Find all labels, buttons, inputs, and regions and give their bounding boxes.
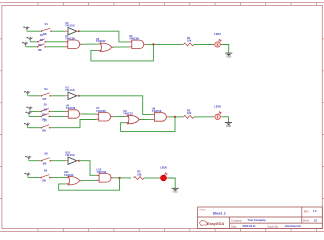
svg-text:2020-03-11: 2020-03-11 xyxy=(243,224,257,228)
svg-text:10k: 10k xyxy=(187,39,192,43)
wire row2 or out xyxy=(140,118,151,120)
frame zone ticks right xyxy=(322,39,324,199)
svg-text:Date:: Date: xyxy=(231,225,237,228)
svg-text:74HC08: 74HC08 xyxy=(65,36,75,40)
svg-text:74HC32: 74HC32 xyxy=(123,112,133,116)
power flag PWR2 xyxy=(27,37,33,42)
wire row1 and1 out xyxy=(82,43,98,45)
wire row3 or out xyxy=(81,179,97,181)
and-gate U1 xyxy=(65,40,82,49)
svg-text:Your Company: Your Company xyxy=(248,218,267,222)
svg-text:REV:: REV: xyxy=(304,210,310,213)
and-gate U4 xyxy=(66,110,83,118)
wire row2 LED to gnd xyxy=(222,117,228,123)
wire row1 or out xyxy=(113,46,129,48)
sheet outer border top line xyxy=(0,1,324,3)
wire row3 net B xyxy=(28,177,40,179)
svg-text:S6: S6 xyxy=(44,107,48,111)
and-gate U9 xyxy=(152,113,169,122)
svg-text:Sheet:: Sheet: xyxy=(303,220,310,223)
svg-text:S1: S1 xyxy=(45,22,49,26)
switch S7 xyxy=(40,125,51,129)
wire row3 to LED xyxy=(144,177,159,179)
power flag PWR1 xyxy=(23,26,29,31)
svg-text:S4: S4 xyxy=(44,87,48,91)
and-gate U6 xyxy=(129,40,146,49)
wire row2 net A xyxy=(28,95,41,97)
frame zone ticks left xyxy=(0,39,2,199)
resistor R1 xyxy=(184,43,194,46)
junction row2 J1 xyxy=(174,116,176,118)
resistor R3 xyxy=(134,177,144,180)
svg-text:S5: S5 xyxy=(44,102,48,106)
svg-text:S8: S8 xyxy=(44,152,48,156)
svg-text:1.0: 1.0 xyxy=(313,209,317,213)
wire row2 feedback xyxy=(121,117,175,131)
wire row2 net C xyxy=(29,115,40,117)
and-gate U7 xyxy=(96,113,113,122)
wire row2 net D xyxy=(28,127,41,129)
switch S5 xyxy=(40,108,51,112)
switch S2 xyxy=(37,39,47,43)
power flag PWR4 xyxy=(24,91,30,96)
wire row2 to LED xyxy=(194,116,213,118)
wire row2 net D2 xyxy=(51,120,96,128)
wire row1 buf out xyxy=(79,31,129,42)
svg-text:10k: 10k xyxy=(137,172,142,176)
power flag PWR9 xyxy=(24,172,30,177)
svg-text:74LV1G: 74LV1G xyxy=(65,88,74,92)
svg-text:S3: S3 xyxy=(40,38,44,42)
wire row3 out xyxy=(114,177,131,179)
LED LED6 xyxy=(159,173,168,181)
switch S3 xyxy=(36,44,46,48)
svg-text:GND: GND xyxy=(173,192,178,194)
power flag PWR3 xyxy=(22,42,28,47)
wire row1 net C xyxy=(26,46,37,48)
wire row3 LED to gnd xyxy=(168,178,175,188)
ground GND3 xyxy=(172,188,179,191)
wire row1 net A xyxy=(27,30,40,32)
svg-text:74HC08: 74HC08 xyxy=(97,170,107,174)
svg-text:Company:: Company: xyxy=(231,219,242,222)
wire row1 net B2 xyxy=(46,41,65,43)
svg-text:74HC08: 74HC08 xyxy=(152,109,162,113)
switch S4 xyxy=(40,93,51,97)
frame zone ticks top xyxy=(38,2,316,5)
buffer U2 xyxy=(65,28,79,35)
switch S9 xyxy=(40,175,51,179)
svg-text:LED6: LED6 xyxy=(160,166,167,170)
power flag PWR6 xyxy=(25,111,31,116)
wire row3 net A xyxy=(29,160,41,162)
switch S8 xyxy=(40,158,51,162)
wire row1 net C2 xyxy=(46,46,65,48)
resistor R2 xyxy=(184,115,194,118)
wire row2 net C2 xyxy=(51,115,66,117)
svg-text:74HC32: 74HC32 xyxy=(96,39,106,43)
svg-text:74LV1G: 74LV1G xyxy=(65,153,74,157)
buffer U3 xyxy=(65,92,79,99)
wire row1 to LED xyxy=(194,43,213,45)
svg-text:S7: S7 xyxy=(44,119,48,123)
and-gate U12 xyxy=(97,174,114,183)
wire row2 and2 out xyxy=(113,115,125,117)
svg-text:S9: S9 xyxy=(44,169,48,173)
svg-text:LED5: LED5 xyxy=(214,104,221,108)
wire row2 net B2 xyxy=(51,110,66,112)
wire row2 net B xyxy=(30,110,40,112)
or-gate U8 xyxy=(125,115,141,124)
wire row3 net A2 xyxy=(52,160,66,162)
svg-text:GND: GND xyxy=(226,56,231,58)
wire row1 net A2 xyxy=(52,30,65,32)
svg-text:74LV1G: 74LV1G xyxy=(65,24,74,28)
power flag PWR7 xyxy=(24,123,30,128)
frame zone ticks bottom xyxy=(38,229,316,232)
wire row3 buf out xyxy=(79,161,97,176)
svg-text:sinksilverush: sinksilverush xyxy=(285,224,302,228)
ground GND2 xyxy=(225,123,232,126)
svg-text:74HC08: 74HC08 xyxy=(129,36,139,40)
wire row1 LED to gnd xyxy=(222,45,229,54)
wire row1 net B xyxy=(30,41,36,43)
wire row1 feedback xyxy=(91,44,153,61)
wire row2 and1 out xyxy=(83,113,96,115)
wire row3 feedback xyxy=(59,178,120,190)
EasyEDA logo xyxy=(200,221,225,226)
wire row2 net A2 xyxy=(52,95,66,97)
switch S6 xyxy=(40,113,51,117)
svg-text:S2: S2 xyxy=(40,33,44,37)
title block outline xyxy=(198,207,323,229)
wire row2 out xyxy=(169,116,183,118)
svg-text:Drawn By:: Drawn By: xyxy=(268,225,279,228)
or-gate U11 xyxy=(66,176,82,185)
svg-text:74HC08: 74HC08 xyxy=(66,106,76,110)
power flag PWR5 xyxy=(26,106,32,111)
svg-text:GND: GND xyxy=(226,126,231,128)
power flag PWR8 xyxy=(25,156,31,161)
svg-text:Sheet_1: Sheet_1 xyxy=(213,212,226,216)
svg-text:EasyEDA: EasyEDA xyxy=(207,221,224,226)
or-gate U5 xyxy=(98,43,114,52)
svg-text:LED4: LED4 xyxy=(214,32,221,36)
svg-text:74HC32: 74HC32 xyxy=(64,173,74,177)
LED LED4 xyxy=(213,39,222,47)
svg-text:TITLE:: TITLE: xyxy=(199,210,206,212)
svg-text:1/1: 1/1 xyxy=(314,219,318,223)
wire row2 buf out xyxy=(79,96,152,115)
svg-text:74HC08: 74HC08 xyxy=(96,109,106,113)
sheet outer border bottom line xyxy=(0,231,324,233)
junction row1 J1 xyxy=(152,43,154,45)
wire row3 net B2 xyxy=(51,177,66,179)
buffer U10 xyxy=(65,157,79,164)
svg-text:10k: 10k xyxy=(187,111,192,115)
wire row1 out xyxy=(146,43,183,45)
ground GND1 xyxy=(225,53,232,56)
junction row3 J1 xyxy=(118,177,120,179)
LED LED5 xyxy=(213,112,222,120)
switch S1 xyxy=(40,28,52,32)
